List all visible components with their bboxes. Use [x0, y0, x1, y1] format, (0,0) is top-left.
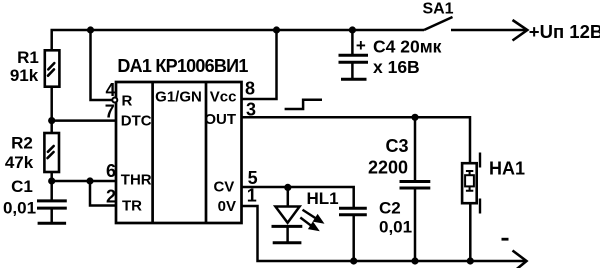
svg-text:C1: C1: [11, 177, 33, 196]
svg-text:C4 20мк: C4 20мк: [373, 37, 442, 57]
svg-text:91k: 91k: [10, 66, 39, 85]
svg-text:2: 2: [106, 187, 116, 207]
svg-text:Vcc: Vcc: [210, 89, 237, 106]
svg-text:HA1: HA1: [489, 159, 525, 179]
svg-text:R2: R2: [11, 134, 33, 153]
svg-text:G1/GN: G1/GN: [155, 89, 202, 106]
svg-text:8: 8: [245, 78, 255, 98]
svg-text:0,01: 0,01: [379, 218, 412, 237]
svg-text:47k: 47k: [5, 153, 34, 172]
svg-text:x 16В: x 16В: [373, 57, 420, 77]
svg-text:OUT: OUT: [204, 111, 236, 128]
svg-text:C2: C2: [379, 199, 401, 218]
svg-text:0,01: 0,01: [3, 199, 36, 218]
svg-text:DA1 КР1006ВИ1: DA1 КР1006ВИ1: [117, 56, 248, 76]
svg-text:THR: THR: [121, 172, 152, 189]
svg-text:C3: C3: [385, 136, 408, 156]
svg-text:DTC: DTC: [121, 113, 152, 130]
svg-text:4: 4: [106, 80, 116, 100]
svg-text:+Uп 12В: +Uп 12В: [529, 21, 600, 42]
svg-text:2200: 2200: [368, 158, 408, 178]
svg-text:HL1: HL1: [307, 189, 339, 208]
svg-text:7: 7: [105, 102, 115, 122]
svg-text:3: 3: [246, 99, 256, 119]
svg-text:R: R: [122, 93, 133, 110]
svg-text:6: 6: [106, 161, 116, 181]
svg-text:CV: CV: [213, 179, 234, 196]
svg-text:+: +: [356, 36, 366, 55]
svg-text:SA1: SA1: [422, 1, 453, 18]
svg-text:R1: R1: [17, 48, 39, 67]
svg-text:TR: TR: [122, 197, 142, 214]
svg-text:1: 1: [247, 185, 257, 205]
svg-text:0V: 0V: [218, 198, 236, 215]
